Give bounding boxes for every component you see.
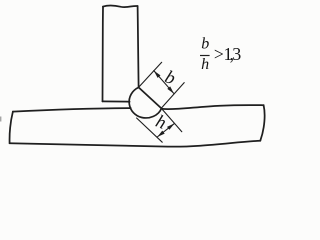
svg-text:b: b xyxy=(162,67,178,89)
svg-text:>: > xyxy=(214,44,224,64)
svg-text:3: 3 xyxy=(232,44,241,64)
svg-text:b: b xyxy=(201,36,209,53)
svg-text:h: h xyxy=(201,56,209,73)
